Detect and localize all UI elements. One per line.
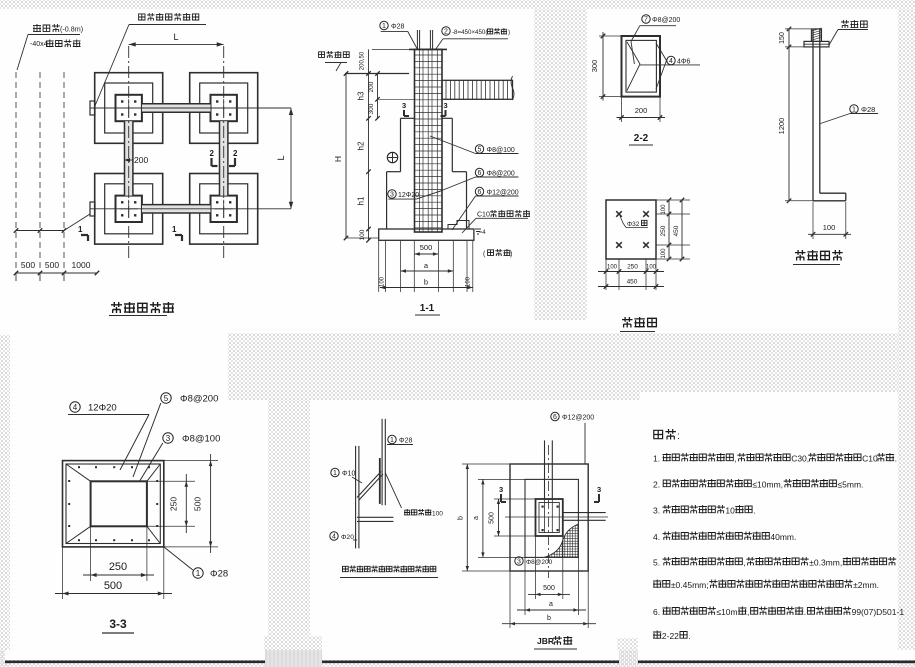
svg-text:6.: 6.: [653, 607, 660, 617]
svg-text:≈4: ≈4: [479, 230, 486, 236]
svg-text:4: 4: [669, 58, 673, 65]
svg-text:500: 500: [420, 243, 433, 252]
svg-text:1: 1: [333, 470, 337, 477]
svg-text:4: 4: [73, 403, 78, 412]
svg-text:500: 500: [45, 260, 59, 270]
svg-text:Φ8@200: Φ8@200: [652, 17, 680, 24]
svg-text:1: 1: [382, 23, 386, 30]
svg-text:Φ12@200: Φ12@200: [562, 415, 594, 422]
svg-text:12Φ20: 12Φ20: [88, 403, 117, 414]
svg-text:200: 200: [368, 81, 375, 92]
svg-text:Φ10: Φ10: [342, 471, 355, 478]
svg-text:2-22: 2-22: [662, 631, 679, 641]
svg-text:,: ,: [734, 454, 736, 464]
svg-text:h1: h1: [357, 196, 366, 205]
svg-text:Φ28: Φ28: [391, 24, 404, 31]
svg-text:.: .: [753, 506, 755, 516]
svg-text:h2: h2: [357, 141, 366, 150]
svg-text:1-1: 1-1: [420, 303, 435, 314]
svg-text:1200: 1200: [777, 118, 786, 135]
svg-text:250: 250: [169, 497, 179, 511]
svg-text:200: 200: [635, 106, 648, 115]
svg-text:3: 3: [166, 434, 171, 443]
svg-text:1: 1: [172, 225, 177, 234]
svg-text:,: ,: [747, 607, 749, 617]
svg-text:250: 250: [660, 225, 667, 236]
svg-text:99(07)D501-1: 99(07)D501-1: [852, 607, 905, 617]
svg-text:≤10m: ≤10m: [716, 607, 737, 617]
svg-text:5.: 5.: [653, 558, 660, 568]
svg-text:a: a: [424, 261, 429, 270]
svg-text:6: 6: [478, 170, 482, 177]
svg-text:450: 450: [673, 225, 680, 236]
svg-text:1: 1: [852, 107, 856, 114]
svg-text:±0.45mm;: ±0.45mm;: [671, 580, 709, 590]
svg-text:2-2: 2-2: [634, 133, 649, 144]
svg-text:C10: C10: [862, 454, 878, 464]
svg-text:.: .: [688, 631, 690, 641]
svg-text:4: 4: [332, 534, 336, 541]
svg-text:-8=450×450(: -8=450×450(: [452, 29, 488, 36]
svg-text:.: .: [895, 454, 897, 464]
svg-text:Φ12@200: Φ12@200: [487, 190, 519, 197]
svg-text:a: a: [473, 516, 480, 520]
svg-text:1.: 1.: [653, 454, 660, 464]
svg-text:500: 500: [193, 497, 203, 511]
svg-text:1000: 1000: [72, 260, 91, 270]
svg-text:±2mm.: ±2mm.: [853, 580, 879, 590]
svg-text:Φ8@100: Φ8@100: [487, 147, 515, 154]
svg-text:3: 3: [390, 192, 394, 199]
svg-text:≤10mm,: ≤10mm,: [752, 480, 783, 490]
svg-text:C30,: C30,: [791, 454, 809, 464]
svg-text:100: 100: [607, 265, 618, 271]
svg-text:7: 7: [644, 17, 648, 24]
svg-text:4.: 4.: [653, 532, 660, 542]
svg-text:(: (: [483, 251, 486, 258]
svg-text:≤5mm.: ≤5mm.: [838, 480, 864, 490]
svg-text::: :: [677, 431, 680, 442]
svg-text:Φ20: Φ20: [341, 534, 354, 541]
svg-text:Φ8@200: Φ8@200: [487, 171, 515, 178]
svg-text:6: 6: [553, 414, 557, 421]
svg-text:3: 3: [402, 101, 406, 110]
svg-text:250: 250: [627, 264, 638, 271]
svg-text:2: 2: [233, 149, 238, 158]
svg-text:200,50: 200,50: [360, 51, 366, 70]
svg-text:JBR: JBR: [537, 636, 554, 646]
svg-text:150: 150: [779, 32, 786, 44]
svg-text:3: 3: [444, 101, 448, 110]
svg-text:Φ28: Φ28: [861, 105, 875, 114]
svg-text:100: 100: [359, 229, 366, 240]
svg-text:3.: 3.: [653, 506, 660, 516]
svg-text:.: .: [804, 607, 806, 617]
svg-text:(-0.8m): (-0.8m): [60, 25, 83, 34]
svg-text:250: 250: [109, 561, 127, 573]
svg-text:a: a: [549, 601, 553, 608]
svg-text:10: 10: [725, 506, 735, 516]
svg-text:200: 200: [134, 155, 148, 165]
svg-text:300: 300: [590, 60, 599, 73]
svg-text:Φ32: Φ32: [627, 221, 640, 228]
svg-text:2.: 2.: [653, 480, 660, 490]
svg-text:Φ8@100: Φ8@100: [182, 434, 220, 445]
svg-text:Φ8@200: Φ8@200: [526, 559, 553, 566]
svg-text:b: b: [547, 615, 551, 622]
svg-text:12Φ20: 12Φ20: [398, 192, 419, 199]
svg-text:L: L: [276, 155, 286, 160]
svg-text:500: 500: [489, 512, 496, 524]
svg-text:100: 100: [646, 265, 657, 271]
svg-text:Φ28: Φ28: [210, 569, 228, 580]
svg-text:100: 100: [380, 276, 386, 287]
svg-text:2: 2: [444, 29, 448, 36]
svg-text:): ): [510, 251, 512, 258]
svg-text:1: 1: [78, 225, 83, 234]
svg-text:100: 100: [823, 223, 836, 232]
svg-text:5: 5: [478, 147, 482, 154]
svg-text:C10: C10: [477, 212, 490, 219]
svg-text:Φ8@200: Φ8@200: [180, 394, 218, 405]
svg-text:6: 6: [478, 189, 482, 196]
svg-text:b: b: [458, 516, 465, 520]
svg-text:5: 5: [164, 394, 169, 403]
svg-text:450: 450: [627, 279, 638, 286]
svg-text:100: 100: [661, 248, 667, 259]
svg-text:h3: h3: [357, 91, 366, 100]
svg-text:40mm.: 40mm.: [770, 532, 796, 542]
svg-text:2: 2: [210, 149, 215, 158]
svg-text:500: 500: [104, 580, 122, 592]
svg-text:500: 500: [21, 260, 35, 270]
svg-text:,: ,: [743, 558, 745, 568]
svg-text:3: 3: [517, 559, 521, 566]
svg-text:-40x4: -40x4: [30, 41, 48, 48]
svg-text:300: 300: [368, 103, 375, 114]
svg-text:3: 3: [597, 485, 601, 494]
svg-text:1: 1: [390, 437, 394, 444]
svg-text:4Φ6: 4Φ6: [677, 59, 690, 66]
svg-text:L: L: [173, 32, 178, 42]
svg-text:H: H: [333, 156, 343, 162]
svg-text:Φ28: Φ28: [399, 438, 412, 445]
svg-text:100: 100: [661, 204, 667, 215]
svg-text:3: 3: [499, 485, 503, 494]
svg-text:): ): [508, 29, 510, 36]
svg-text:500: 500: [543, 585, 555, 592]
svg-text:b: b: [424, 278, 428, 287]
svg-text:100: 100: [432, 511, 443, 518]
svg-text:100: 100: [466, 276, 472, 287]
svg-text:3-3: 3-3: [109, 617, 127, 631]
svg-text:±0.3mm,: ±0.3mm,: [809, 558, 842, 568]
svg-text:1: 1: [196, 569, 201, 578]
